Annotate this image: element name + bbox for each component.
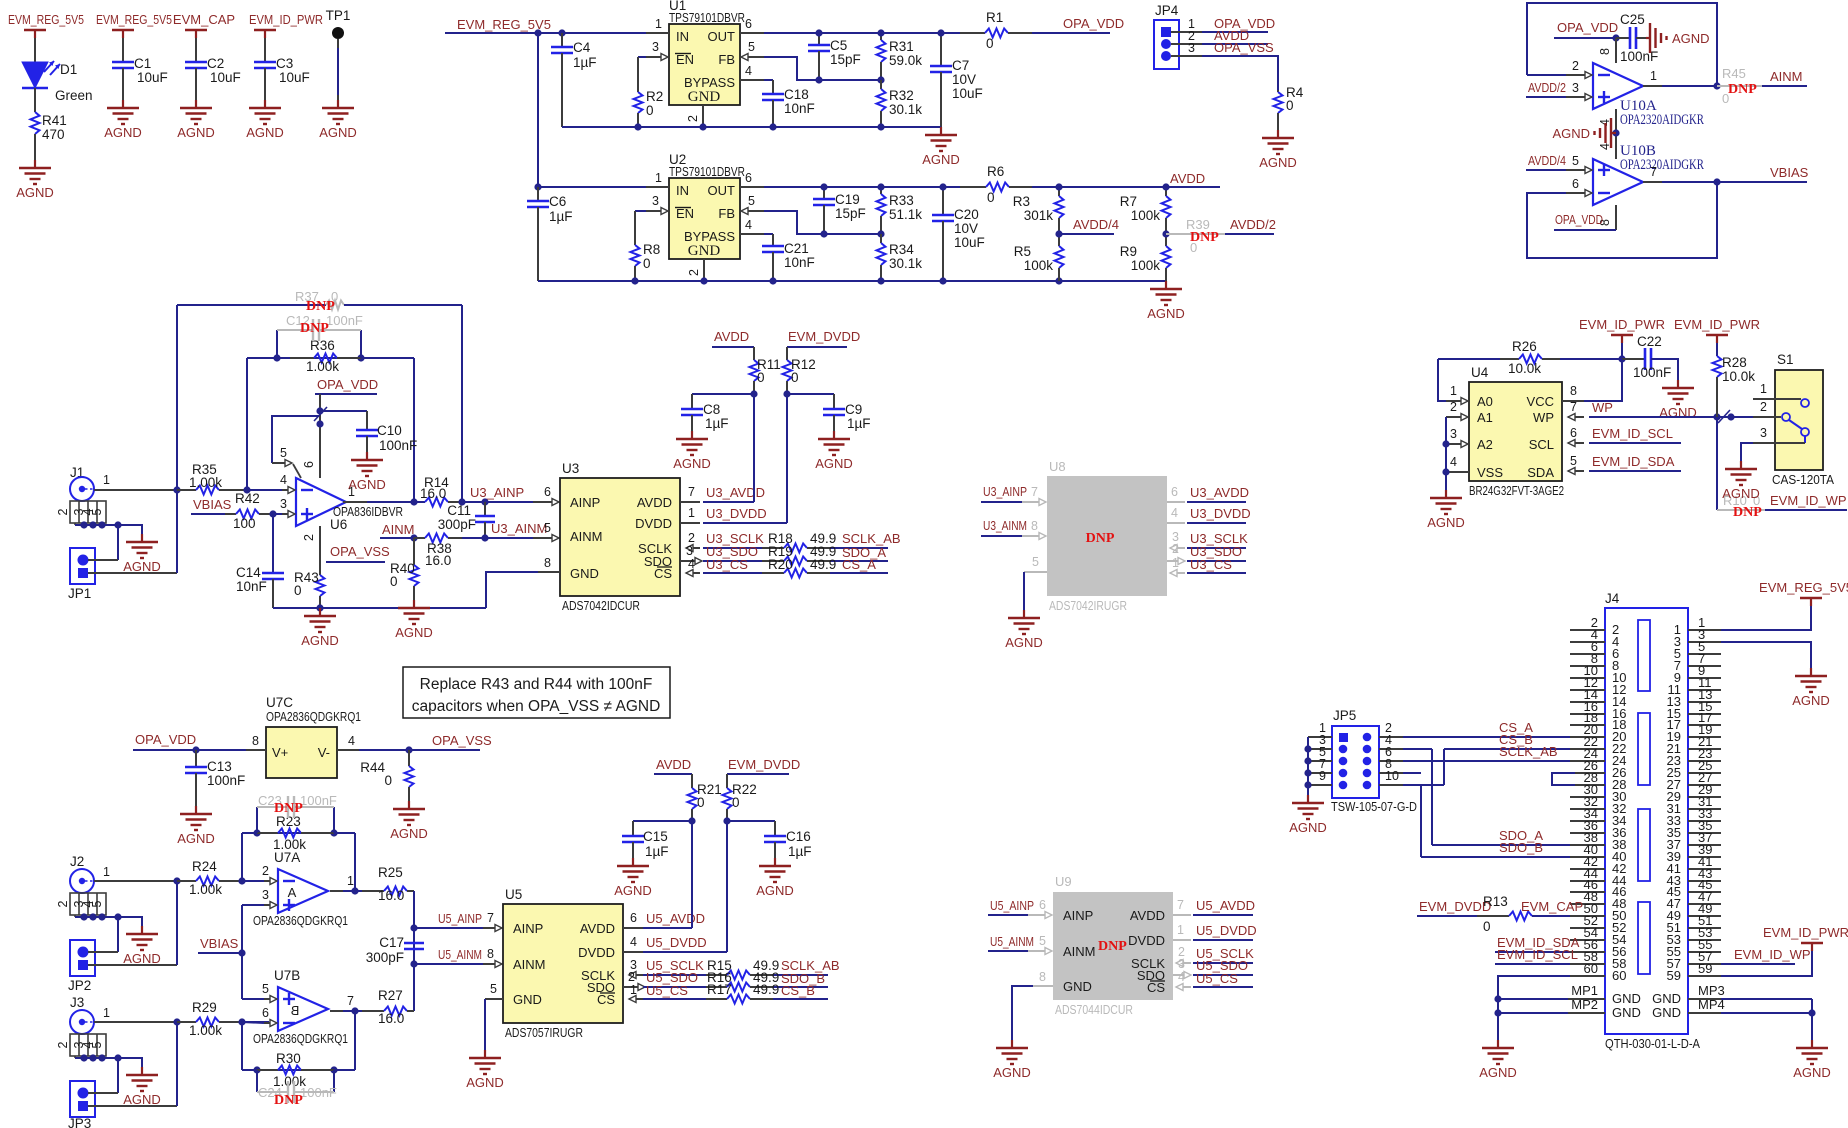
svg-text:6: 6 bbox=[745, 171, 752, 185]
svg-text:3: 3 bbox=[652, 194, 659, 208]
svg-text:A: A bbox=[288, 885, 297, 900]
svg-text:AGND: AGND bbox=[1672, 31, 1710, 46]
svg-text:OPA2320AIDGKR: OPA2320AIDGKR bbox=[1620, 157, 1704, 173]
svg-text:2: 2 bbox=[686, 115, 700, 122]
svg-text:0: 0 bbox=[643, 256, 651, 271]
junction bbox=[410, 534, 417, 541]
note box bbox=[403, 667, 670, 718]
svg-text:C14: C14 bbox=[236, 565, 261, 580]
svg-text:JP3: JP3 bbox=[68, 1116, 91, 1128]
svg-text:3: 3 bbox=[1760, 426, 1767, 440]
pin 4 CS row bbox=[686, 572, 700, 574]
pin 7 WP bbox=[1568, 416, 1584, 418]
svg-text:2: 2 bbox=[56, 508, 70, 515]
svg-text:TPS79101DBVR: TPS79101DBVR bbox=[669, 164, 745, 179]
net label EVM_ID_WP row57 bbox=[1721, 963, 1795, 965]
svg-text:R25: R25 bbox=[378, 865, 403, 880]
ground AGND bbox=[632, 858, 634, 866]
capacitor C3 bbox=[254, 61, 276, 64]
resistor R15 bbox=[706, 974, 727, 976]
junction bbox=[316, 604, 323, 611]
svg-text:capacitors when OPA_VSS ≠ AGND: capacitors when OPA_VSS ≠ AGND bbox=[412, 698, 661, 715]
wire JP2 pin2 bbox=[88, 964, 177, 966]
resistor R29 bbox=[177, 1021, 196, 1023]
ground AGND bbox=[366, 452, 368, 460]
svg-text:TSW-105-07-G-D: TSW-105-07-G-D bbox=[1331, 799, 1417, 814]
wire bbox=[1443, 749, 1445, 785]
pin 8 bbox=[1562, 400, 1584, 402]
svg-text:1: 1 bbox=[103, 473, 110, 487]
svg-text:C4: C4 bbox=[573, 40, 591, 55]
svg-text:3: 3 bbox=[1572, 81, 1579, 95]
svg-text:U7C: U7C bbox=[266, 695, 293, 710]
junction bbox=[405, 746, 412, 753]
ground AGND bbox=[1740, 461, 1742, 469]
wire bbox=[34, 88, 36, 112]
svg-text:EVM_ID_PWR: EVM_ID_PWR bbox=[1674, 317, 1760, 332]
svg-text:59: 59 bbox=[1667, 968, 1681, 983]
wire bbox=[561, 53, 563, 127]
svg-text:49.9: 49.9 bbox=[753, 982, 779, 997]
wire MP3 bbox=[1721, 998, 1812, 1000]
resistor R34 bbox=[880, 234, 882, 243]
svg-text:AGND: AGND bbox=[16, 185, 54, 200]
svg-text:5: 5 bbox=[748, 40, 755, 54]
net label AINM bbox=[1762, 85, 1807, 87]
wire EVM_REG_5V5 to U1 IN bbox=[445, 32, 646, 34]
pin 4 bbox=[337, 749, 359, 751]
wire bbox=[367, 501, 425, 503]
connector JP3 bbox=[70, 1081, 95, 1117]
svg-text:U5_CS: U5_CS bbox=[646, 983, 688, 998]
wire bbox=[337, 39, 339, 48]
svg-text:AVDD: AVDD bbox=[580, 921, 615, 936]
svg-text:3: 3 bbox=[280, 497, 287, 511]
pin 2 wire bbox=[319, 526, 321, 562]
svg-text:0: 0 bbox=[986, 36, 994, 51]
junction bbox=[877, 277, 884, 284]
svg-text:R24: R24 bbox=[192, 859, 217, 874]
svg-text:EVM_ID_PWR: EVM_ID_PWR bbox=[1579, 317, 1665, 332]
capacitor C25 bbox=[1616, 37, 1630, 39]
svg-text:OPA2836QDGKRQ1: OPA2836QDGKRQ1 bbox=[253, 913, 348, 928]
junction bbox=[351, 1007, 358, 1014]
svg-text:100k: 100k bbox=[1024, 258, 1054, 273]
svg-text:2: 2 bbox=[628, 970, 635, 984]
net label SCLK_AB bbox=[773, 974, 828, 976]
svg-text:R2: R2 bbox=[646, 89, 663, 104]
resistor R24 bbox=[177, 880, 196, 882]
svg-text:VBIAS: VBIAS bbox=[200, 936, 239, 951]
svg-text:1: 1 bbox=[655, 171, 662, 185]
svg-text:AVDD/4: AVDD/4 bbox=[1073, 217, 1119, 232]
svg-text:1: 1 bbox=[1650, 69, 1657, 83]
pin 5 bbox=[747, 56, 764, 58]
wire row60 to AGND bbox=[1498, 976, 1570, 1013]
pin 4 bbox=[282, 489, 289, 491]
capacitor C17 bbox=[404, 942, 424, 945]
pin 2 bbox=[264, 880, 271, 882]
junction bbox=[458, 498, 465, 505]
pin 1 bbox=[646, 32, 669, 34]
junction bbox=[173, 486, 180, 493]
svg-text:AINP: AINP bbox=[1063, 908, 1093, 923]
pin 4 DVDD bbox=[1167, 522, 1185, 524]
junction bbox=[877, 76, 884, 83]
svg-text:AINP: AINP bbox=[570, 495, 600, 510]
wire bbox=[264, 38, 266, 62]
svg-text:OPA_VSS: OPA_VSS bbox=[1214, 40, 1274, 55]
svg-text:59: 59 bbox=[1698, 961, 1712, 976]
svg-text:AGND: AGND bbox=[177, 831, 215, 846]
capacitor C8 bbox=[691, 394, 693, 409]
svg-text:GND: GND bbox=[1612, 1005, 1641, 1020]
pin 4 DVDD bbox=[623, 951, 643, 953]
wire bbox=[122, 38, 124, 62]
svg-text:100: 100 bbox=[233, 516, 256, 531]
svg-text:16.0: 16.0 bbox=[420, 486, 446, 501]
svg-text:0: 0 bbox=[646, 103, 654, 118]
svg-text:EN: EN bbox=[676, 206, 694, 221]
svg-text:8: 8 bbox=[252, 734, 259, 748]
svg-text:AINM: AINM bbox=[513, 957, 546, 972]
junction bbox=[631, 277, 638, 284]
svg-text:3: 3 bbox=[262, 888, 269, 902]
pin 8 GND bbox=[1033, 985, 1053, 987]
svg-text:QTH-030-01-L-D-A: QTH-030-01-L-D-A bbox=[1605, 1036, 1700, 1051]
svg-text:300pF: 300pF bbox=[438, 517, 476, 532]
svg-text:C7: C7 bbox=[952, 58, 969, 73]
pin 3 bbox=[645, 56, 662, 58]
junction bbox=[877, 29, 884, 36]
pin 3 bbox=[282, 513, 289, 515]
svg-text:SDO_B: SDO_B bbox=[1499, 840, 1543, 855]
svg-text:6: 6 bbox=[262, 1006, 269, 1020]
JP5 pin 5 bbox=[1339, 757, 1348, 766]
pin 6 bbox=[264, 1022, 271, 1024]
svg-text:GND: GND bbox=[513, 992, 542, 1007]
svg-text:R20: R20 bbox=[768, 557, 793, 572]
wire gnd rail bbox=[562, 126, 941, 128]
wire bbox=[1431, 749, 1433, 845]
pin 1 output bbox=[330, 890, 343, 892]
svg-text:30.1k: 30.1k bbox=[889, 256, 922, 271]
svg-text:EN: EN bbox=[676, 52, 694, 67]
wire bbox=[1716, 417, 1718, 510]
ground AGND bbox=[1165, 281, 1167, 289]
wire bbox=[88, 559, 118, 561]
svg-text:U3_AINM: U3_AINM bbox=[983, 518, 1027, 533]
wire gnd rail bbox=[538, 280, 1166, 282]
wire bbox=[1420, 785, 1422, 857]
svg-text:U4: U4 bbox=[1471, 365, 1489, 380]
connector JP2 bbox=[70, 940, 95, 976]
wire to JP1 bbox=[117, 525, 119, 560]
wire pin3 to AGND bbox=[1721, 642, 1811, 668]
resistor R20 bbox=[762, 572, 784, 574]
ground AGND bbox=[1011, 1040, 1013, 1048]
wire R23 feedback loop bbox=[242, 832, 355, 834]
svg-text:7: 7 bbox=[1177, 898, 1184, 912]
junction bbox=[1713, 82, 1720, 89]
svg-text:1µF: 1µF bbox=[549, 209, 573, 224]
svg-text:5: 5 bbox=[1572, 154, 1579, 168]
svg-text:16.0: 16.0 bbox=[425, 553, 451, 568]
svg-text:U5: U5 bbox=[505, 887, 522, 902]
wire JP5 pin10 bbox=[1403, 784, 1444, 786]
pin 7 output bbox=[330, 1010, 343, 1012]
resistor R35 bbox=[177, 489, 196, 491]
pin 3 bbox=[1446, 443, 1462, 445]
resistor R4 bbox=[1277, 90, 1279, 92]
svg-text:1µF: 1µF bbox=[705, 416, 729, 431]
svg-text:4: 4 bbox=[745, 64, 752, 78]
svg-text:C17: C17 bbox=[379, 935, 404, 950]
svg-text:R8: R8 bbox=[643, 242, 660, 257]
svg-text:0: 0 bbox=[390, 574, 398, 589]
svg-text:CS_B: CS_B bbox=[781, 983, 815, 998]
svg-text:1.00k: 1.00k bbox=[189, 475, 222, 490]
svg-text:10uF: 10uF bbox=[279, 70, 310, 85]
junction bbox=[939, 277, 946, 284]
resistor R42 bbox=[225, 513, 236, 515]
wire CS_A row20 bbox=[1403, 736, 1570, 738]
pin 6 bbox=[740, 186, 764, 188]
svg-text:16.0: 16.0 bbox=[378, 1011, 404, 1026]
svg-text:AVDD: AVDD bbox=[1130, 908, 1165, 923]
svg-text:0: 0 bbox=[384, 773, 392, 788]
svg-text:EVM_ID_WP: EVM_ID_WP bbox=[1734, 947, 1811, 962]
svg-text:EVM_ID_PWR: EVM_ID_PWR bbox=[249, 12, 323, 27]
svg-text:4: 4 bbox=[1178, 970, 1185, 984]
wire shield bus bbox=[75, 525, 142, 534]
svg-text:BR24G32FVT-3AGE2: BR24G32FVT-3AGE2 bbox=[1469, 483, 1564, 498]
pin 3 bbox=[645, 210, 662, 212]
svg-text:7: 7 bbox=[1031, 485, 1038, 499]
svg-text:SDA: SDA bbox=[1527, 465, 1554, 480]
junction bbox=[1727, 413, 1734, 420]
svg-text:C16: C16 bbox=[786, 829, 811, 844]
resistor R8 bbox=[635, 210, 646, 212]
wire bbox=[343, 890, 362, 892]
connector JP1 bbox=[70, 548, 95, 584]
svg-text:100nF: 100nF bbox=[326, 313, 363, 328]
pin 3 bbox=[1753, 442, 1805, 444]
svg-text:R3: R3 bbox=[1013, 194, 1030, 209]
svg-text:OPA2836QDGKRQ1: OPA2836QDGKRQ1 bbox=[266, 709, 361, 724]
ground AGND bbox=[833, 431, 835, 439]
JP5 pin 4 bbox=[1363, 745, 1372, 754]
wire to JP2 bbox=[117, 917, 119, 952]
pin 1 CS bbox=[1170, 572, 1185, 574]
junction bbox=[253, 829, 260, 836]
junction bbox=[877, 230, 884, 237]
ground AGND bbox=[1677, 380, 1679, 388]
pin 6 bbox=[1566, 192, 1586, 194]
svg-text:U3_AINP: U3_AINP bbox=[470, 485, 524, 500]
svg-text:1: 1 bbox=[347, 874, 354, 888]
pin 5 stub bbox=[533, 537, 553, 539]
svg-text:EVM_ID_PWR: EVM_ID_PWR bbox=[1763, 925, 1848, 940]
resistor R39 DNP bbox=[1166, 233, 1225, 235]
junction bbox=[723, 817, 730, 824]
svg-text:EVM_REG_5V5: EVM_REG_5V5 bbox=[8, 12, 84, 27]
wire pin8 bbox=[1615, 205, 1617, 230]
svg-text:5: 5 bbox=[1039, 934, 1046, 948]
svg-text:8: 8 bbox=[487, 947, 494, 961]
svg-text:SCLK_AB: SCLK_AB bbox=[1499, 744, 1558, 759]
svg-text:R44: R44 bbox=[360, 760, 385, 775]
junction bbox=[357, 354, 364, 361]
capacitor C13 bbox=[195, 750, 197, 767]
svg-text:SCL: SCL bbox=[1529, 437, 1554, 452]
svg-text:AVDD: AVDD bbox=[637, 495, 672, 510]
junction bbox=[481, 534, 488, 541]
svg-text:Green: Green bbox=[55, 88, 93, 103]
svg-text:U5_DVDD: U5_DVDD bbox=[1196, 923, 1257, 938]
ground AGND bbox=[34, 160, 36, 168]
svg-text:U5_AVDD: U5_AVDD bbox=[646, 911, 705, 926]
junction bbox=[173, 877, 180, 884]
pin 1 DVDD bbox=[1173, 939, 1191, 941]
switch lever bbox=[1789, 420, 1802, 429]
wire MP2 bbox=[1498, 1012, 1568, 1014]
resistor R45 DNP bbox=[1717, 85, 1762, 87]
junction bbox=[316, 420, 323, 427]
wire J1 to R35 bbox=[94, 489, 177, 491]
pin 7 AVDD bbox=[1173, 914, 1191, 916]
JP5 pin 3 bbox=[1339, 745, 1348, 754]
junction bbox=[634, 123, 641, 130]
junction bbox=[238, 949, 245, 956]
svg-text:100nF: 100nF bbox=[1620, 49, 1658, 64]
svg-text:10.0k: 10.0k bbox=[1722, 369, 1755, 384]
wire bbox=[247, 489, 288, 491]
svg-text:R29: R29 bbox=[192, 1000, 217, 1015]
JP5 pin 6 bbox=[1363, 757, 1372, 766]
net label CS_B bbox=[773, 998, 828, 1000]
svg-text:R6: R6 bbox=[987, 164, 1004, 179]
svg-text:AGND: AGND bbox=[673, 456, 711, 471]
svg-text:AGND: AGND bbox=[301, 633, 339, 648]
svg-text:OPA2320AIDGKR: OPA2320AIDGKR bbox=[1620, 112, 1704, 128]
junction bbox=[700, 277, 707, 284]
svg-text:100nF: 100nF bbox=[300, 793, 337, 808]
svg-text:6: 6 bbox=[1171, 485, 1178, 499]
pin 5 SDA bbox=[1568, 470, 1584, 472]
svg-text:C9: C9 bbox=[845, 402, 862, 417]
svg-text:GND: GND bbox=[688, 243, 721, 259]
svg-text:0: 0 bbox=[1483, 919, 1491, 934]
svg-text:GND: GND bbox=[570, 566, 599, 581]
svg-text:IN: IN bbox=[676, 29, 689, 44]
resistor R5 bbox=[1058, 234, 1060, 246]
junction bbox=[815, 76, 822, 83]
svg-text:10: 10 bbox=[1385, 769, 1399, 783]
wire bbox=[88, 1092, 118, 1094]
wire shield bus bbox=[75, 917, 142, 926]
ground AGND bbox=[195, 100, 197, 108]
wire MP1 bbox=[1498, 998, 1568, 1000]
svg-text:10uF: 10uF bbox=[952, 86, 983, 101]
net label EVM_CAP bbox=[1532, 915, 1570, 917]
pin 2 bbox=[1171, 43, 1202, 45]
junction bbox=[351, 887, 358, 894]
svg-text:6: 6 bbox=[630, 911, 637, 925]
capacitor C1 bbox=[112, 61, 134, 64]
svg-text:GND: GND bbox=[688, 89, 721, 105]
svg-text:60: 60 bbox=[1612, 968, 1626, 983]
svg-text:AGND: AGND bbox=[1259, 155, 1297, 170]
svg-text:AVDD/2: AVDD/2 bbox=[1230, 217, 1276, 232]
svg-text:R42: R42 bbox=[235, 491, 260, 506]
svg-text:C25: C25 bbox=[1620, 12, 1645, 27]
wire R36 loop bbox=[247, 357, 414, 359]
capacitor C12 DNP bbox=[276, 330, 278, 358]
resistor R41 bbox=[31, 112, 40, 134]
wire OUT rail bbox=[764, 186, 960, 188]
svg-text:7: 7 bbox=[487, 911, 494, 925]
svg-text:AGND: AGND bbox=[993, 1065, 1031, 1080]
wire bbox=[1741, 443, 1753, 461]
svg-text:0: 0 bbox=[1286, 98, 1294, 113]
capacitor C15 bbox=[632, 821, 634, 836]
svg-text:U5_AINP: U5_AINP bbox=[438, 911, 482, 926]
pin 6 AVDD bbox=[623, 927, 643, 929]
svg-text:5: 5 bbox=[262, 982, 269, 996]
svg-text:AGND: AGND bbox=[123, 559, 161, 574]
svg-text:7: 7 bbox=[1650, 165, 1657, 179]
svg-text:AGND: AGND bbox=[177, 125, 215, 140]
J4 right pins bbox=[1688, 629, 1721, 631]
capacitor C10 bbox=[366, 411, 368, 430]
pin 1 bbox=[1753, 398, 1775, 400]
svg-text:EVM_ID_SCL: EVM_ID_SCL bbox=[1592, 426, 1673, 441]
svg-text:15pF: 15pF bbox=[835, 206, 866, 221]
svg-text:AGND: AGND bbox=[246, 125, 284, 140]
svg-text:VCC: VCC bbox=[1527, 394, 1554, 409]
wire bbox=[753, 394, 755, 502]
svg-text:R7: R7 bbox=[1120, 194, 1137, 209]
junction bbox=[1055, 277, 1062, 284]
svg-text:R41: R41 bbox=[42, 113, 67, 128]
pin 8 stub bbox=[538, 571, 560, 573]
resistor R6 bbox=[960, 186, 986, 188]
svg-text:DNP: DNP bbox=[1190, 230, 1219, 245]
svg-text:1.00k: 1.00k bbox=[189, 882, 222, 897]
resistor R22 bbox=[726, 774, 728, 788]
svg-text:R32: R32 bbox=[889, 88, 914, 103]
wire SCLK_AB row24 bbox=[1403, 760, 1570, 762]
svg-text:7: 7 bbox=[347, 994, 354, 1008]
junction bbox=[783, 390, 790, 397]
wire bbox=[1811, 999, 1813, 1040]
svg-text:4: 4 bbox=[1450, 455, 1457, 469]
resistor R32 bbox=[880, 80, 882, 89]
junction bbox=[1055, 230, 1062, 237]
svg-text:2: 2 bbox=[1450, 400, 1457, 414]
wire SDO_A row38 bbox=[1432, 844, 1570, 846]
svg-text:1µF: 1µF bbox=[847, 416, 871, 431]
wire / net label U3_AINP bbox=[462, 501, 533, 503]
junction bbox=[1494, 1009, 1501, 1016]
JP5 pin 9 bbox=[1339, 781, 1348, 790]
net-tie slash bbox=[314, 407, 327, 421]
svg-text:OUT: OUT bbox=[708, 183, 736, 198]
svg-text:VSS: VSS bbox=[1477, 465, 1503, 480]
ground AGND bbox=[122, 100, 124, 108]
net label SDO_B bbox=[773, 986, 828, 988]
